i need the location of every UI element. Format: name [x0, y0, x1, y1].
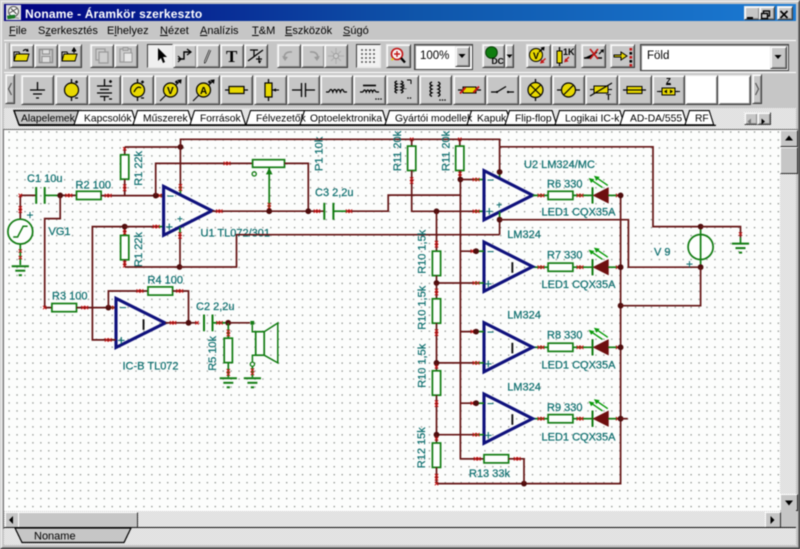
svg-text:LM324: LM324 [507, 382, 541, 394]
svg-text:AD-DA/555: AD-DA/555 [630, 114, 682, 125]
node I output node [266, 208, 272, 214]
wire A4 minus input [460, 402, 483, 405]
plus sign A3 [485, 356, 493, 371]
svg-text:−: − [487, 245, 494, 259]
bar marking A3 [511, 343, 513, 354]
plus sign IC-B [118, 333, 126, 348]
node K U2 Vplus [497, 169, 503, 175]
svg-text:R2 100: R2 100 [76, 179, 111, 191]
wire VG1 top to C1 node [19, 194, 36, 219]
wire R13 right to bottom rail [509, 457, 524, 484]
plus sign U2 [486, 203, 494, 218]
svg-text:V: V [167, 86, 174, 97]
label R5 10k [207, 335, 219, 370]
svg-text:+: + [27, 208, 34, 222]
label R11 20k right [441, 130, 453, 171]
svg-text:+: + [118, 333, 126, 348]
svg-text:Noname: Noname [34, 531, 76, 543]
svg-text:R7 330: R7 330 [547, 249, 582, 261]
svg-text:R10 1,5k: R10 1,5k [417, 343, 429, 388]
svg-text:Logikai IC-k: Logikai IC-k [565, 114, 620, 125]
svg-text:RF: RF [695, 114, 709, 125]
wire C3 to inverting bus [346, 195, 461, 213]
resistor R10b with stems [432, 283, 440, 363]
minus sign IC-B [120, 301, 127, 315]
node Q bus V9 tap [618, 303, 624, 309]
svg-text:+: + [177, 214, 183, 225]
label U2 LM324/MC [524, 159, 595, 171]
plus sign A4 [485, 428, 493, 443]
wire LED to bus R9 [608, 417, 620, 420]
op-amp A4 [484, 394, 533, 443]
capacitor C2 [195, 315, 228, 332]
svg-text:R11 20k: R11 20k [392, 130, 404, 171]
svg-text:Források: Források [200, 114, 241, 125]
svg-text:U2 LM324/MC: U2 LM324/MC [524, 159, 595, 171]
wire rail to ground top right [701, 227, 743, 238]
label R6 330 [547, 179, 582, 191]
node M ladder top [434, 208, 440, 214]
svg-text:LED1 CQX35A: LED1 CQX35A [542, 207, 617, 219]
wire node E to speaker [228, 322, 250, 324]
wire VG1 bottom to ground [19, 244, 22, 265]
label LED1 CQX35A R7 [542, 279, 617, 291]
wire inverting bus down the column [460, 180, 483, 459]
x mark R12 bottom [435, 482, 438, 485]
wire U1 Vplus pin [179, 147, 182, 195]
wire U2 plus input [437, 210, 484, 213]
wire U2 Vplus pin [499, 147, 501, 179]
resistor R9 [548, 415, 573, 423]
wire R6 to LED [573, 194, 593, 197]
label VG1 [49, 226, 71, 238]
node R10bc [434, 360, 440, 366]
svg-text:Műszerek: Műszerek [143, 114, 188, 125]
svg-text:R12 15k: R12 15k [416, 427, 428, 468]
node L U2 minus [458, 177, 464, 183]
label P1 10k [314, 136, 326, 171]
resistor R7 [548, 263, 573, 271]
resistor R10a with stems [432, 211, 440, 283]
LED R7 row [589, 248, 609, 276]
voltage generator VG1 [8, 219, 33, 244]
label LM324 A4 [507, 382, 541, 394]
resistor R5 and leads [224, 323, 232, 377]
label R8 330 [547, 329, 582, 341]
wire node H to U1 label wire [180, 235, 500, 267]
node A4 minus [473, 400, 479, 406]
svg-text:VG1: VG1 [49, 226, 71, 238]
wire U1 noninverting net down to IC-B plus input [92, 227, 124, 342]
label C3 2,2u [315, 187, 354, 199]
wire C1 to R2 with node A [60, 194, 76, 197]
svg-text:A: A [200, 86, 207, 97]
label R9 330 [547, 402, 582, 414]
speaker SPK [250, 321, 278, 377]
wire node G to U1 plus input [125, 225, 164, 228]
node J C3 node [305, 208, 311, 214]
svg-text:T: T [606, 93, 611, 102]
plus sign A2 [485, 276, 493, 291]
svg-text:−: − [487, 397, 494, 411]
ground speaker [244, 378, 261, 387]
node N U2 Vminus [497, 217, 503, 223]
plus sign VG1 [27, 208, 34, 222]
resistor R3 [52, 304, 77, 312]
node T rail R13 [521, 481, 527, 487]
svg-text:Kapcsolók: Kapcsolók [84, 114, 132, 125]
svg-text:LED1 CQX35A: LED1 CQX35A [542, 431, 617, 443]
svg-text:C3 2,2u: C3 2,2u [315, 187, 354, 199]
wire top rail left segment [125, 146, 181, 148]
plus sign V9 [686, 257, 693, 271]
bar marking IC-B [143, 319, 145, 330]
label C2 2,2u [196, 301, 235, 313]
wire op-amp output row R8 [533, 346, 548, 349]
plus sign U1 power [177, 214, 183, 225]
resistor R2 [77, 191, 102, 199]
label R12 15k [416, 427, 428, 468]
resistor R13 [484, 455, 509, 463]
op-amp U2 [484, 171, 533, 220]
plus sign U2 power [496, 200, 502, 211]
LED R9 row [589, 399, 609, 427]
ground R5 [220, 378, 237, 387]
svg-text:R1 22k: R1 22k [133, 150, 145, 185]
wire U1 output [212, 210, 324, 213]
wire A3 plus input [437, 361, 484, 364]
svg-text:R11 20k: R11 20k [441, 130, 453, 171]
label IC-B TL072 [123, 361, 179, 373]
node D IC-B output [186, 320, 192, 326]
feedback wire node C to R4 [108, 289, 147, 307]
label LED1 CQX35A R6 [542, 207, 617, 219]
node A3 minus [473, 329, 479, 335]
svg-text:+: + [486, 203, 494, 218]
svg-text:R3 100: R3 100 [52, 290, 87, 302]
LED R8 row [589, 328, 609, 356]
plus sign U1 [166, 219, 174, 234]
label R10 1,5k c [417, 343, 429, 388]
wire U2 Vminus pin [499, 212, 501, 235]
capacitor C1 [36, 187, 60, 204]
label R3 100 [52, 290, 87, 302]
svg-text:L: L [403, 84, 407, 91]
node V V9 bottom [698, 264, 704, 270]
svg-text:+: + [496, 200, 502, 211]
wire LED bus vertical [437, 195, 621, 483]
feedback wire node B up to P1 [156, 162, 253, 196]
wire op-amp output row R6 [533, 194, 548, 197]
label R10 1,5k a [417, 229, 429, 274]
svg-text:+: + [485, 428, 493, 443]
svg-text:LM324: LM324 [507, 229, 541, 241]
svg-text:−: − [487, 173, 494, 187]
svg-text:DC: DC [492, 56, 504, 66]
svg-text:C1 10u: C1 10u [27, 173, 62, 185]
node G U1 plus net [122, 224, 128, 230]
svg-text:T: T [226, 47, 238, 66]
svg-text:+: + [686, 257, 693, 271]
node C [106, 305, 112, 311]
wire R4 to IC-B output node [173, 289, 189, 323]
node R bus row3 [618, 344, 624, 350]
resistor R1 upper with stems [121, 147, 129, 196]
wire R2 to U1 inverting input [101, 194, 164, 197]
node E speaker node [225, 320, 231, 326]
node R10R12 [434, 432, 440, 438]
svg-text:LM324: LM324 [507, 310, 541, 322]
potentiometer P1 [252, 160, 284, 212]
wire node A down to R3 [43, 195, 60, 309]
wire main positive rail [181, 138, 500, 147]
wire IC-B output [165, 321, 198, 324]
node O bus top [618, 193, 624, 199]
svg-text:R8 330: R8 330 [547, 329, 582, 341]
svg-text:C2 2,2u: C2 2,2u [196, 301, 235, 313]
svg-text:R9 330: R9 330 [547, 402, 582, 414]
minus sign A2 [487, 245, 494, 259]
node P bus row2 [618, 264, 624, 270]
svg-text:P1 10k: P1 10k [314, 136, 326, 171]
svg-text:R10 1,5k: R10 1,5k [417, 229, 429, 274]
wire LED to bus R7 [608, 266, 620, 269]
minus sign A3 [487, 325, 494, 339]
svg-text:Félvezetők: Félvezetők [256, 114, 307, 125]
svg-text:V: V [533, 51, 539, 61]
wire A4 plus input [437, 433, 484, 436]
svg-text:R4 100: R4 100 [148, 275, 183, 287]
label R1 22k lower [133, 232, 145, 267]
svg-text:U1 TL072/301: U1 TL072/301 [201, 228, 271, 240]
wire R8 to LED [573, 346, 593, 349]
svg-text:R5 10k: R5 10k [207, 335, 219, 370]
svg-text:+: + [485, 276, 493, 291]
svg-text:R13 33k: R13 33k [469, 468, 510, 480]
op-amp IC-B [116, 298, 165, 347]
resistor R10c with stems [432, 363, 440, 435]
label R1 22k upper [133, 150, 145, 185]
label LED1 CQX35A R9 [542, 431, 617, 443]
resistor R4 [148, 287, 173, 295]
svg-text:IC-B TL072: IC-B TL072 [123, 361, 179, 373]
minus sign A4 [487, 397, 494, 411]
wire op-amp output row R7 [533, 266, 548, 269]
svg-text:Kapuk: Kapuk [477, 114, 507, 125]
label R10 1,5k b [417, 285, 429, 330]
wire P1 right to node I [285, 163, 309, 211]
capacitor C3 [314, 203, 348, 220]
resistor R11a with stems [408, 139, 437, 211]
wire op-amp output row R9 [533, 417, 548, 420]
minus sign U1 [167, 189, 174, 203]
resistor R8 [548, 343, 573, 351]
svg-text:R10 1,5k: R10 1,5k [417, 285, 429, 330]
node F U1 Vplus [178, 144, 184, 150]
label U1 TL072/301 [201, 228, 271, 240]
svg-text:Alapelemek: Alapelemek [21, 114, 76, 125]
svg-text:LED1 CQX35A: LED1 CQX35A [542, 359, 617, 371]
wire A2 plus input [437, 281, 484, 284]
label R7 330 [547, 249, 582, 261]
wire R9 to LED [573, 417, 593, 420]
op-amp A2 [484, 242, 533, 291]
label LED1 CQX35A R8 [542, 359, 617, 371]
svg-text:R6 330: R6 330 [547, 179, 582, 191]
wire rail step segment [500, 147, 701, 227]
svg-text:V 9: V 9 [654, 246, 671, 258]
label LM324 A2 [507, 229, 541, 241]
node A [57, 193, 63, 199]
bar marking A2 [511, 262, 513, 273]
label R4 100 [148, 275, 183, 287]
wire V9 bottom to bus tap [621, 267, 701, 306]
node H [177, 264, 183, 270]
wire LED to bus R6 [608, 194, 620, 197]
bar marking A4 [511, 414, 513, 425]
label R11 20k left [392, 130, 404, 171]
wire U1 Vminus pin to node H [178, 227, 181, 267]
svg-text:LED1 CQX35A: LED1 CQX35A [542, 279, 617, 291]
wire U2 minus input [460, 178, 483, 181]
label LM324 A3 [507, 310, 541, 322]
op-amp A3 [484, 323, 533, 372]
svg-text:−: − [167, 189, 174, 203]
LED R6 row [589, 176, 609, 204]
label V 9 [654, 246, 671, 258]
wire R13 left lead [460, 457, 484, 460]
wire lower R1 to node H [125, 266, 180, 268]
svg-text:Optoelektronika: Optoelektronika [310, 114, 382, 125]
label R2 100 [76, 179, 111, 191]
wire LED to bus R8 [608, 346, 620, 349]
svg-text:−: − [487, 325, 494, 339]
node B feedback tap [153, 193, 159, 199]
node U V9 top [698, 224, 704, 230]
minus sign U2 [487, 173, 494, 187]
node A2 minus [473, 248, 479, 254]
ground top right [732, 238, 749, 253]
svg-text:Gyártói modellek: Gyártói modellek [395, 114, 473, 125]
node R10ab [434, 280, 440, 286]
resistor R6 [548, 191, 573, 199]
battery V9 [688, 227, 713, 267]
wire U2 Vminus to right [500, 220, 701, 268]
svg-text:+: + [485, 356, 493, 371]
resistor R12 with stems [432, 435, 440, 484]
wire R7 to LED [573, 266, 593, 269]
wire A3 minus input [460, 330, 483, 333]
svg-text:−: − [120, 301, 127, 315]
wire R3 to IC-B inverting node [77, 306, 116, 309]
resistor R1 lower with stems [121, 227, 129, 268]
svg-text:1K: 1K [563, 47, 575, 57]
svg-text:R1 22k: R1 22k [133, 232, 145, 267]
op-amp U1 [164, 186, 212, 235]
svg-text:Flip-flop: Flip-flop [515, 114, 552, 125]
resistor R11b with stems [456, 139, 464, 179]
node S bus row4 [618, 416, 628, 422]
label R13 33k [469, 468, 510, 480]
ground VG1 [12, 266, 29, 275]
svg-text:+: + [166, 219, 174, 234]
wire A2 minus input [460, 250, 483, 253]
label C1 10u [27, 173, 62, 185]
